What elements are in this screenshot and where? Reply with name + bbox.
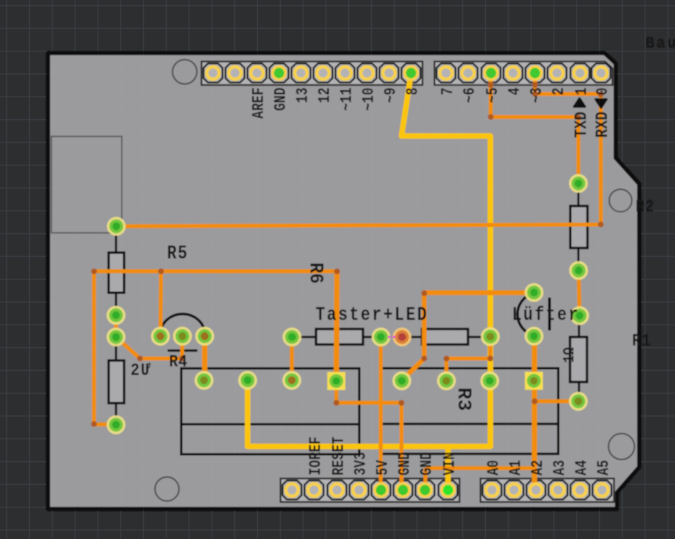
svg-text:7: 7	[440, 88, 458, 96]
svg-text:8: 8	[405, 87, 423, 95]
svg-text:R4: R4	[169, 351, 188, 372]
svg-text:4: 4	[507, 87, 525, 95]
svg-text:TXD: TXD	[572, 111, 592, 137]
svg-text:Bau: Bau	[646, 34, 675, 52]
svg-text:~11: ~11	[339, 87, 357, 110]
svg-text:RESET: RESET	[331, 436, 349, 475]
svg-text:GND: GND	[397, 452, 415, 475]
svg-text:0: 0	[595, 87, 613, 95]
svg-text:A0: A0	[486, 460, 504, 476]
svg-text:A1: A1	[508, 460, 526, 476]
svg-text:IOREF: IOREF	[308, 436, 326, 475]
svg-text:5V: 5V	[375, 460, 393, 476]
svg-text:A3: A3	[552, 460, 570, 476]
svg-text:~10: ~10	[361, 87, 379, 110]
svg-text:AREF: AREF	[251, 87, 269, 118]
svg-text:13: 13	[295, 87, 313, 103]
svg-text:R3: R3	[453, 388, 475, 411]
svg-text:R5: R5	[167, 243, 188, 265]
svg-text:~5: ~5	[485, 87, 503, 103]
svg-text:Lüfter: Lüfter	[512, 304, 580, 326]
svg-text:GND: GND	[419, 452, 437, 475]
svg-text:RXD: RXD	[593, 111, 613, 137]
svg-text:GND: GND	[273, 87, 291, 110]
svg-text:A2: A2	[530, 460, 548, 476]
svg-text:A5: A5	[596, 460, 614, 476]
svg-text:~9: ~9	[383, 87, 401, 103]
svg-text:R6: R6	[304, 263, 327, 284]
svg-text:VIN: VIN	[442, 452, 460, 475]
svg-text:~3: ~3	[529, 87, 547, 103]
svg-text:3V3: 3V3	[353, 452, 371, 475]
svg-text:~6: ~6	[462, 87, 480, 103]
